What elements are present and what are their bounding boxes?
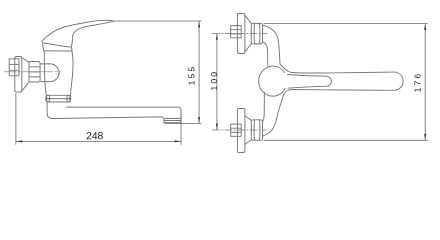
svg-text:176: 176 <box>412 72 422 93</box>
svg-text:155: 155 <box>187 65 197 86</box>
svg-text:100: 100 <box>209 70 219 91</box>
svg-text:248: 248 <box>86 131 103 142</box>
